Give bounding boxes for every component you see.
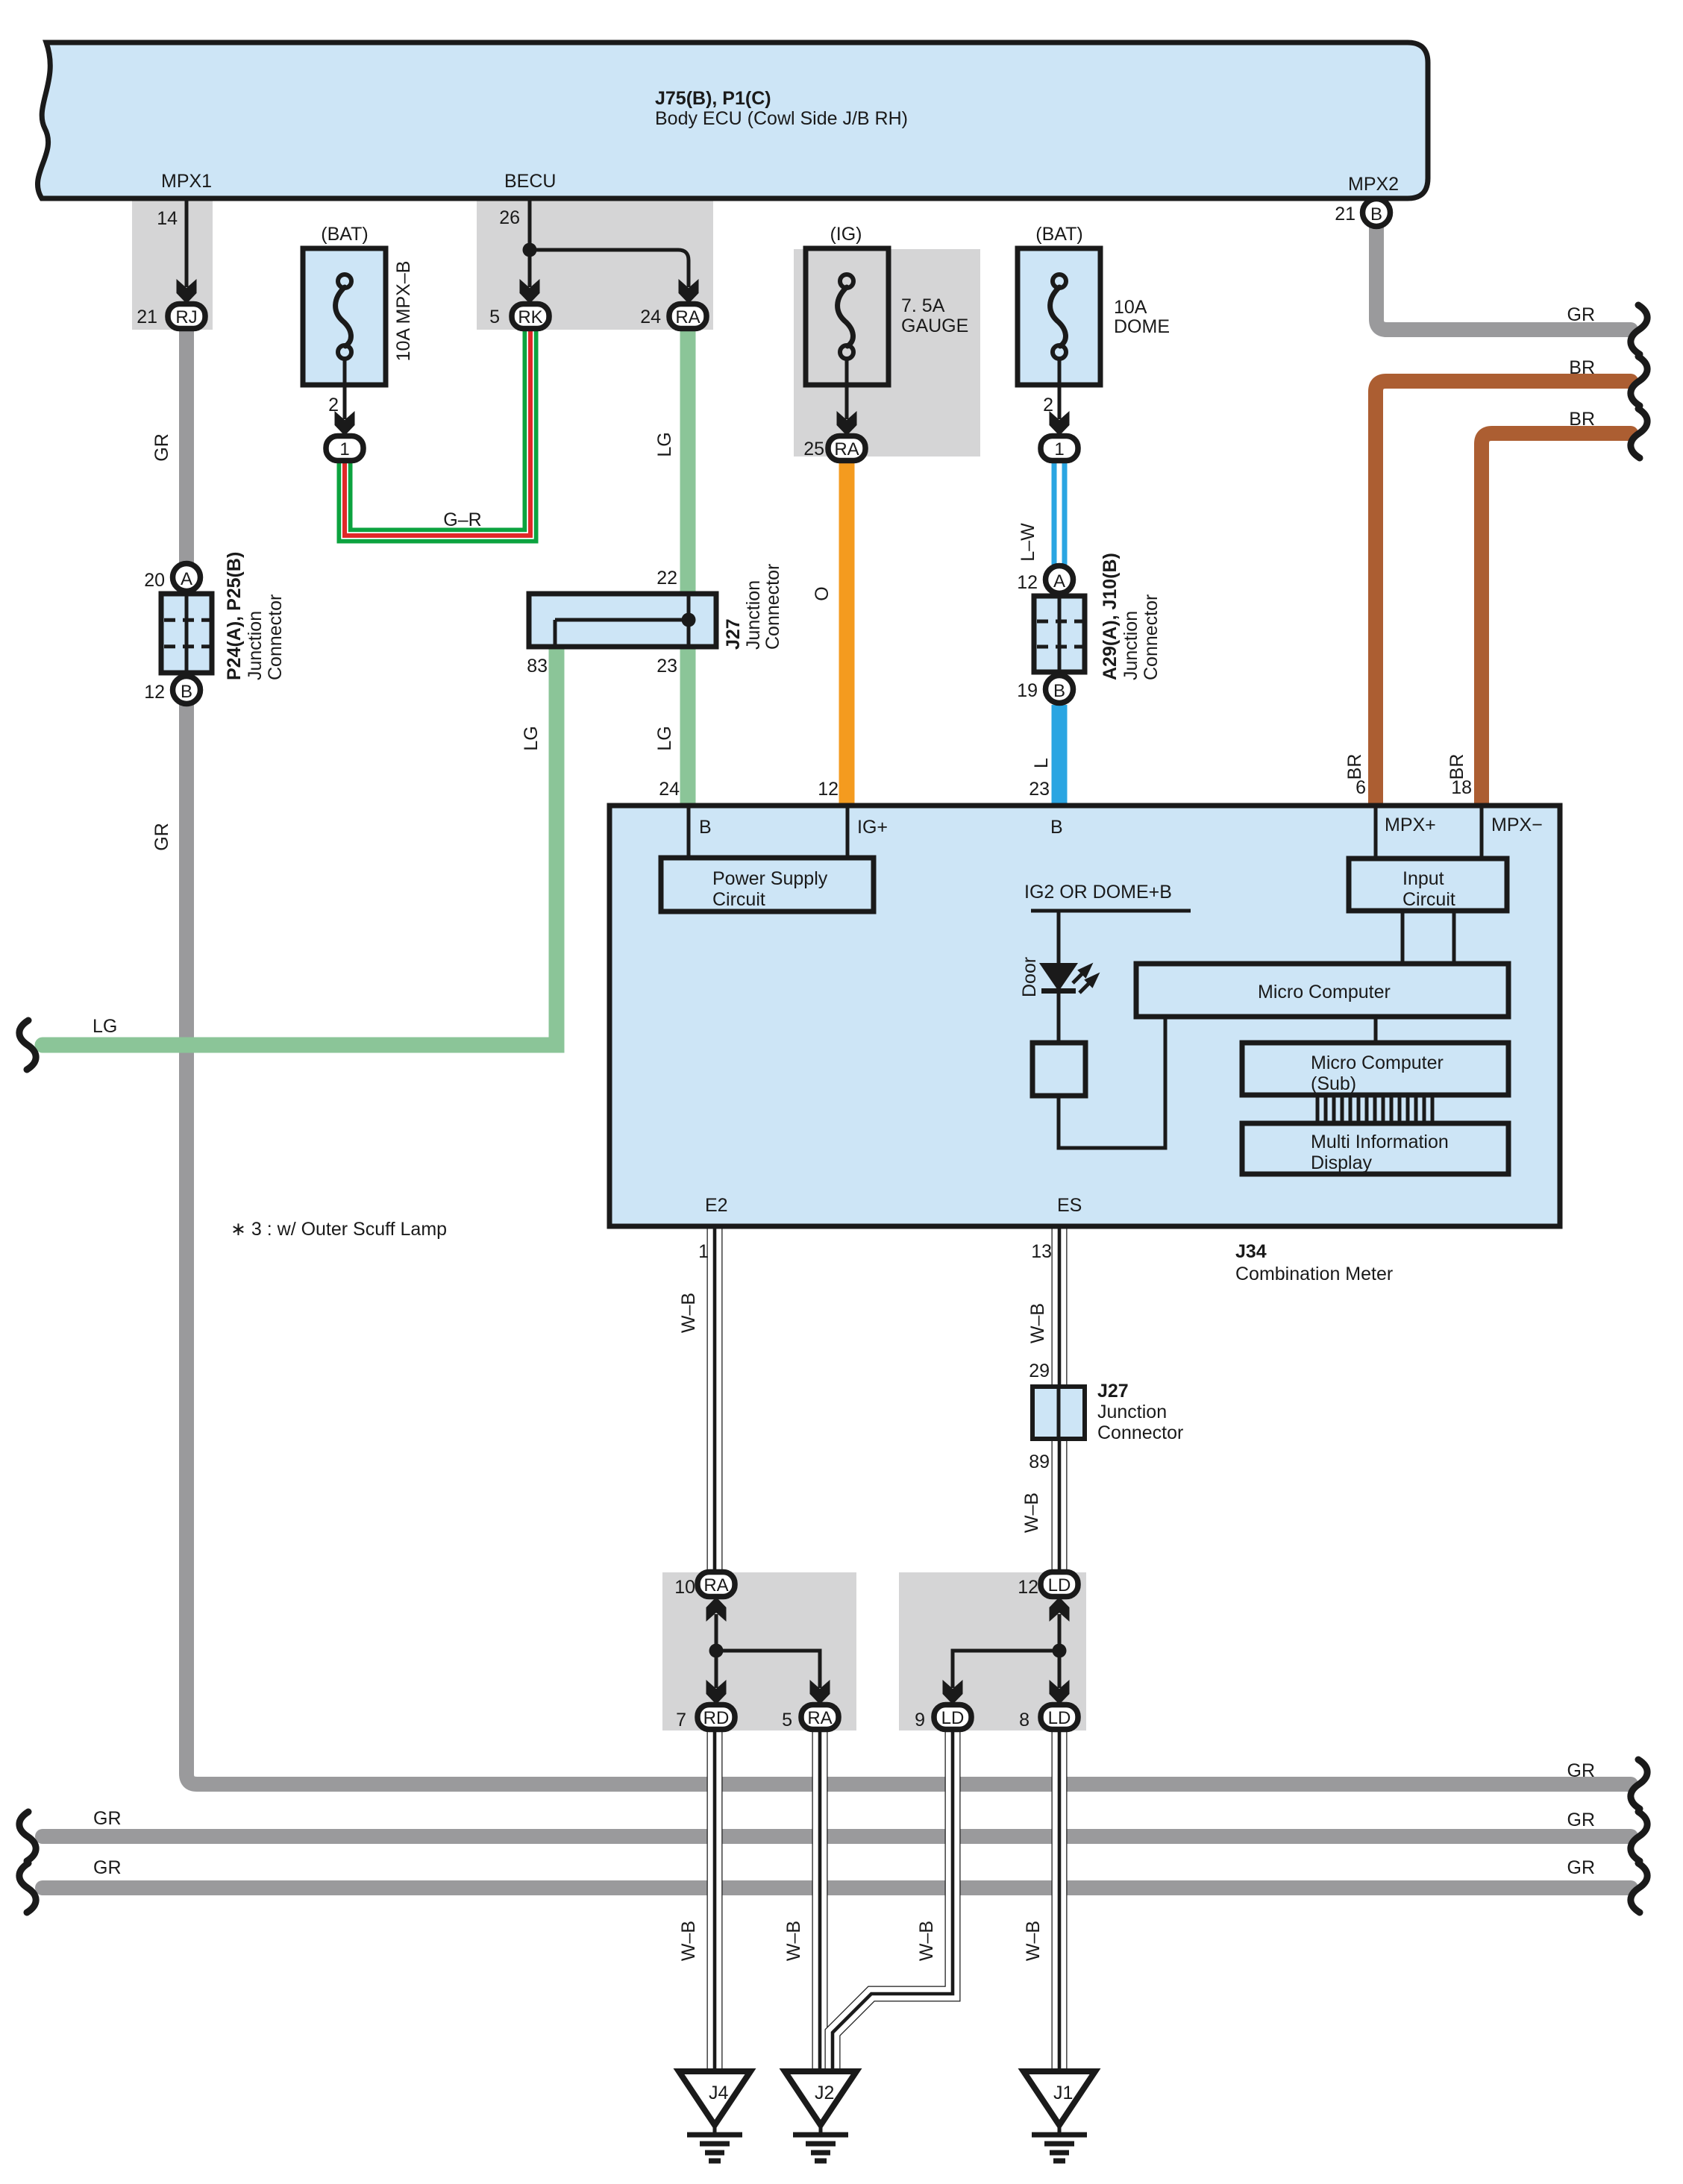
connector oval 12 LD bottom right <box>1018 1572 1078 1598</box>
wire GR from pin21 RJ down to bottom row A <box>187 328 1631 1784</box>
svg-text:21: 21 <box>1335 204 1356 225</box>
svg-text:25: 25 <box>803 439 824 459</box>
svg-text:7. 5A: 7. 5A <box>901 295 945 316</box>
wire G-R from oval1 to RK5 <box>345 331 530 536</box>
svg-text:A: A <box>181 569 192 589</box>
arrow up into 10RA <box>706 1597 727 1622</box>
svg-text:10: 10 <box>674 1577 695 1598</box>
svg-text:Micro Computer: Micro Computer <box>1258 982 1391 1002</box>
svg-text:J1: J1 <box>1053 2083 1073 2103</box>
svg-text:W–B: W–B <box>783 1921 804 1961</box>
label pin 1 below E2 <box>698 1241 709 1262</box>
svg-text:Junction: Junction <box>1097 1402 1167 1422</box>
wire GAUGE fuse lead to RA25 <box>845 385 849 419</box>
shade rect under BECU pin 26 <box>477 198 713 330</box>
svg-text:GR: GR <box>1567 1857 1596 1878</box>
svg-text:W–B: W–B <box>1021 1493 1042 1533</box>
label BR right 2 <box>1569 409 1595 430</box>
svg-text:B: B <box>181 682 192 702</box>
ground J4 <box>679 2071 750 2161</box>
svg-text:Connector: Connector <box>1097 1422 1183 1443</box>
connector oval 5 RK <box>489 304 549 329</box>
svg-text:LD: LD <box>1048 1575 1071 1595</box>
svg-text:Circuit: Circuit <box>712 889 765 910</box>
svg-text:5: 5 <box>782 1710 792 1730</box>
svg-text:Junction: Junction <box>245 611 266 680</box>
connector oval 1 under MPX-B fuse <box>326 395 363 461</box>
node junction dot pin26 <box>523 243 537 257</box>
wire W-B from 8 LD to ground J1 <box>1052 1730 1068 2071</box>
fuse 10A MPX-B <box>303 224 414 385</box>
svg-text:BR: BR <box>1344 754 1365 780</box>
svg-text:MPX2: MPX2 <box>1348 174 1399 195</box>
label G-R <box>443 509 481 530</box>
svg-text:24: 24 <box>640 307 661 327</box>
label W-B wire2 bottom <box>783 1921 804 1961</box>
label W-B wire4 bottom <box>1023 1921 1044 1961</box>
label LG at pin83 wire <box>521 726 542 750</box>
svg-text:MPX+: MPX+ <box>1385 815 1436 835</box>
svg-text:10A: 10A <box>1114 297 1147 318</box>
wire break squiggle left LG <box>19 1020 36 1070</box>
combination meter box J34 <box>609 806 1560 1226</box>
svg-text:J2: J2 <box>815 2083 834 2103</box>
svg-text:L–W: L–W <box>1018 523 1038 562</box>
svg-text:G–R: G–R <box>443 509 481 530</box>
label GR right row A <box>1567 1760 1596 1781</box>
wire LED to switch box <box>1057 994 1061 1043</box>
wire break squiggle left row C <box>19 1863 36 1912</box>
svg-text:8: 8 <box>1019 1710 1029 1730</box>
wire break squiggle right BR1 <box>1631 357 1647 406</box>
svg-text:LG: LG <box>521 726 542 750</box>
connector oval 25 RA under GAUGE fuse <box>803 436 865 461</box>
switch box in door circuit <box>1032 1043 1085 1096</box>
svg-text:J75(B), P1(C): J75(B), P1(C) <box>655 88 771 109</box>
svg-text:(BAT): (BAT) <box>321 224 368 245</box>
note w/ Outer Scuff Lamp <box>231 1219 447 1240</box>
shade rect bottom-right connector group <box>899 1572 1086 1730</box>
wire pin26 lead with junction <box>530 201 689 287</box>
svg-text:23: 23 <box>656 656 677 677</box>
wire switch box to micro computer <box>1059 1017 1165 1148</box>
ECU box J75(B) P1(C) <box>37 43 1428 198</box>
label W-B wire1 bottom <box>678 1921 699 1961</box>
connector circle 21 B at MPX2 <box>1335 199 1390 227</box>
wire MPX-B fuse lead to oval 1 <box>343 385 347 419</box>
label pin 24 at J34 <box>659 779 680 800</box>
svg-text:9: 9 <box>915 1710 925 1730</box>
connector oval 9 LD <box>915 1705 971 1731</box>
wire break squiggle right row C <box>1631 1863 1647 1912</box>
label GR left row B <box>93 1808 122 1829</box>
wire 12LD to junction dot to 9LD and 8LD <box>953 1614 1059 1688</box>
wire GR row B <box>43 1829 1631 1844</box>
svg-text:BR: BR <box>1569 409 1595 430</box>
svg-text:12: 12 <box>1017 572 1038 593</box>
svg-text:12: 12 <box>144 682 165 703</box>
label GR right row C <box>1567 1857 1596 1878</box>
svg-text:RA: RA <box>675 307 700 327</box>
svg-text:Circuit: Circuit <box>1402 889 1455 910</box>
wire break squiggle left row B <box>19 1812 36 1861</box>
label GR on left wire lower <box>151 823 172 851</box>
ribbon hatch between sub and display <box>1317 1095 1432 1123</box>
block Power Supply Circuit <box>661 858 874 911</box>
arrow into 8LD <box>1050 1680 1070 1704</box>
label W-B on E2 wire <box>678 1293 699 1333</box>
svg-text:MPX−: MPX− <box>1491 815 1543 835</box>
svg-text:Connector: Connector <box>1141 594 1162 680</box>
wire GR from MPX2 B circle to right edge <box>1376 226 1631 330</box>
svg-text:Display: Display <box>1311 1152 1372 1173</box>
label BR2 <box>1447 754 1467 780</box>
wire 10RA to junction dot to 7RD and 5RA <box>716 1614 820 1688</box>
label W-B below J27 lower <box>1021 1493 1042 1533</box>
connector oval 1 under DOME fuse <box>1041 395 1078 461</box>
svg-text:P24(A), P25(B): P24(A), P25(B) <box>224 552 245 680</box>
svg-text:RA: RA <box>807 1708 832 1728</box>
svg-text:Junction: Junction <box>1121 611 1141 680</box>
wire O from RA25 to J34 pin12 <box>839 459 855 804</box>
svg-text:IG+: IG+ <box>857 817 888 838</box>
svg-text:BR: BR <box>1447 754 1467 780</box>
label GR right top <box>1567 304 1596 325</box>
svg-text:W–B: W–B <box>916 1921 937 1961</box>
svg-text:83: 83 <box>527 656 548 677</box>
wire bus to LED <box>1057 911 1061 964</box>
wire break squiggle right BR2 <box>1631 409 1647 458</box>
svg-text:LG: LG <box>654 432 675 456</box>
svg-text:GR: GR <box>1567 304 1596 325</box>
svg-text:BECU: BECU <box>504 171 556 192</box>
node junction dot right group <box>1053 1644 1067 1658</box>
label 26 <box>499 207 520 228</box>
label GR on left wire upper <box>151 433 172 462</box>
shade rect under MPX1 pin 14 <box>132 198 213 330</box>
svg-text:24: 24 <box>659 779 680 800</box>
svg-text:RA: RA <box>703 1575 728 1595</box>
svg-text:BR: BR <box>1569 357 1595 378</box>
svg-text:L: L <box>1031 758 1052 768</box>
svg-text:RA: RA <box>834 439 859 459</box>
svg-text:MPX1: MPX1 <box>161 171 212 192</box>
wire L from A29 circle B to J34 pin23 <box>1052 705 1068 804</box>
arrow up into 12LD <box>1050 1597 1070 1622</box>
svg-text:RJ: RJ <box>175 307 197 327</box>
svg-text:19: 19 <box>1017 680 1038 701</box>
fuse 10A DOME <box>1018 224 1170 385</box>
junction connector A29(A) J10(B) <box>1017 553 1162 703</box>
svg-text:7: 7 <box>676 1710 686 1730</box>
node IG2 OR DOME+B bus <box>1024 882 1191 911</box>
label W-B on ES wire <box>1027 1303 1048 1343</box>
svg-text:23: 23 <box>1029 779 1050 800</box>
wire stub B to power supply <box>687 808 691 858</box>
svg-text:W–B: W–B <box>1027 1303 1048 1343</box>
svg-text:J27: J27 <box>1097 1381 1129 1402</box>
block Multi Information Display <box>1242 1123 1508 1174</box>
connector oval 8 LD <box>1019 1705 1078 1731</box>
label pin 13 below ES <box>1031 1241 1052 1262</box>
junction connector J27 lower <box>1029 1361 1183 1472</box>
svg-text:∗ 3 : w/ Outer Scuff Lamp: ∗ 3 : w/ Outer Scuff Lamp <box>231 1219 447 1240</box>
label pin 18 at J34 <box>1451 777 1472 798</box>
svg-text:B: B <box>1370 204 1382 225</box>
svg-text:RK: RK <box>518 307 542 327</box>
svg-text:2: 2 <box>1043 395 1053 415</box>
block Micro Computer <box>1136 964 1508 1017</box>
wire BR MPX- pin18 <box>1482 433 1631 804</box>
svg-text:GAUGE: GAUGE <box>901 316 968 336</box>
wire GR row C <box>43 1880 1631 1895</box>
svg-text:B: B <box>699 817 712 838</box>
wire stub MPX- to input circuit <box>1480 808 1484 859</box>
fuse 7.5A GAUGE <box>806 224 968 385</box>
label L-W <box>1018 523 1038 562</box>
svg-text:Body ECU (Cowl Side J/B RH): Body ECU (Cowl Side J/B RH) <box>655 108 908 129</box>
wire stub MPX+ to input circuit <box>1374 808 1378 859</box>
svg-text:J27: J27 <box>723 618 744 650</box>
svg-text:Power Supply: Power Supply <box>712 868 828 889</box>
svg-text:E2: E2 <box>705 1195 728 1216</box>
wire LG from RA24 to J27 pin22 <box>680 328 696 593</box>
svg-text:LG: LG <box>93 1016 117 1037</box>
svg-text:Junction: Junction <box>743 580 764 650</box>
junction connector P24(A) P25(B) <box>144 552 286 704</box>
arrow into oval1 DOME <box>1050 411 1070 436</box>
label BR1 <box>1344 754 1365 780</box>
svg-text:22: 22 <box>656 568 677 589</box>
svg-text:DOME: DOME <box>1114 316 1170 337</box>
wire W-B from 7 RD to ground J4 <box>707 1730 723 2071</box>
svg-text:GR: GR <box>151 433 172 462</box>
svg-text:W–B: W–B <box>678 1921 699 1961</box>
wire BR MPX+ pin6 <box>1376 381 1631 804</box>
svg-text:1: 1 <box>339 439 349 459</box>
svg-text:26: 26 <box>499 207 520 228</box>
label LG left <box>93 1016 117 1037</box>
svg-text:(IG): (IG) <box>830 224 862 245</box>
connector oval 10 RA bottom left <box>674 1572 735 1598</box>
arrow into 9LD <box>943 1680 963 1704</box>
label pin 12 at J34 <box>818 779 839 800</box>
label LG at pin24 wire <box>654 726 675 750</box>
label 14 <box>157 208 178 229</box>
label O orange wire <box>812 586 833 600</box>
svg-text:2: 2 <box>328 395 339 415</box>
svg-text:1: 1 <box>1054 439 1064 459</box>
svg-text:Input: Input <box>1402 868 1444 889</box>
label GR left row C <box>93 1857 122 1878</box>
label pin 6 at J34 <box>1356 777 1366 798</box>
svg-text:Combination Meter: Combination Meter <box>1235 1264 1393 1284</box>
node junction dot left group <box>709 1644 724 1658</box>
arrow into RA24 <box>679 279 699 304</box>
ground J1 <box>1024 2071 1095 2161</box>
wire W-B from 5 RA to ground J2 <box>812 1730 828 2071</box>
svg-text:13: 13 <box>1031 1241 1052 1262</box>
arrow into oval1 MPX-B <box>335 411 355 436</box>
svg-text:(Sub): (Sub) <box>1311 1073 1356 1094</box>
wire L-W from oval1 DOME to A29 circle A <box>1052 459 1068 565</box>
svg-text:A: A <box>1053 571 1065 591</box>
label W-B wire3 bottom <box>916 1921 937 1961</box>
svg-text:B: B <box>1053 681 1065 701</box>
label GR right row B <box>1567 1810 1596 1830</box>
svg-text:O: O <box>812 586 833 600</box>
svg-text:J4: J4 <box>709 2083 729 2103</box>
svg-text:20: 20 <box>144 570 165 591</box>
svg-text:Micro Computer: Micro Computer <box>1311 1052 1444 1073</box>
svg-text:GR: GR <box>93 1857 122 1878</box>
svg-text:29: 29 <box>1029 1361 1050 1381</box>
svg-text:IG2 OR DOME+B: IG2 OR DOME+B <box>1024 882 1172 903</box>
svg-text:Connector: Connector <box>762 564 783 650</box>
wire stub IG+ to power supply <box>846 808 850 858</box>
wire pin14 lead <box>185 201 189 287</box>
svg-text:Connector: Connector <box>265 594 286 680</box>
ground J2 <box>785 2071 856 2161</box>
svg-text:10A MPX–B: 10A MPX–B <box>393 261 414 362</box>
svg-text:A29(A), J10(B): A29(A), J10(B) <box>1100 553 1121 680</box>
svg-text:89: 89 <box>1029 1452 1050 1472</box>
shade rect bottom-left connector group <box>662 1572 856 1730</box>
label J34 Combination Meter <box>1235 1241 1393 1284</box>
wire LG from J27 pin23 to J34 pin24 <box>680 647 696 804</box>
connector oval 24 RA <box>640 304 706 329</box>
arrow into 5RA <box>810 1680 830 1704</box>
svg-text:12: 12 <box>1018 1577 1038 1598</box>
svg-text:GR: GR <box>93 1808 122 1829</box>
svg-text:Door: Door <box>1019 957 1040 997</box>
connector oval 7 RD <box>676 1705 735 1731</box>
wire input circuit to micro computer right <box>1452 911 1456 964</box>
svg-text:12: 12 <box>818 779 839 800</box>
svg-text:LG: LG <box>654 726 675 750</box>
wire W-B from E2 to 10 RA <box>707 1228 723 1574</box>
block Input Circuit <box>1349 859 1507 911</box>
svg-text:GR: GR <box>1567 1810 1596 1830</box>
svg-text:(BAT): (BAT) <box>1035 224 1082 245</box>
shade rect around GAUGE fuse <box>794 249 980 456</box>
svg-text:W–B: W–B <box>678 1293 699 1333</box>
LED door lamp <box>1019 957 1104 997</box>
arrow into RJ <box>177 279 197 304</box>
svg-text:LD: LD <box>1048 1708 1071 1728</box>
svg-text:GR: GR <box>151 823 172 851</box>
svg-text:GR: GR <box>1567 1760 1596 1781</box>
wire W-B from ES through J27 to 12 LD <box>1052 1228 1068 1574</box>
wire break squiggle right row A <box>1631 1760 1647 1809</box>
svg-text:LD: LD <box>941 1708 965 1728</box>
connector oval 5 RA bottom <box>782 1705 839 1731</box>
arrow into 7RD <box>706 1680 727 1704</box>
junction connector J27 center <box>527 564 783 677</box>
svg-text:5: 5 <box>489 307 500 327</box>
wire input circuit to micro computer left <box>1401 911 1405 964</box>
svg-text:1: 1 <box>698 1241 709 1262</box>
svg-text:J34: J34 <box>1235 1241 1267 1262</box>
svg-text:14: 14 <box>157 208 178 229</box>
wire break squiggle right GR top <box>1631 305 1647 354</box>
svg-text:RD: RD <box>703 1708 730 1728</box>
wire micro computer to sub <box>1374 1017 1378 1043</box>
svg-text:21: 21 <box>137 307 157 327</box>
label BR right 1 <box>1569 357 1595 378</box>
block Micro Computer (Sub) <box>1242 1043 1508 1095</box>
connector oval 21 RJ <box>137 304 205 329</box>
arrow into RA25 <box>837 411 857 436</box>
svg-text:W–B: W–B <box>1023 1921 1044 1961</box>
svg-text:B: B <box>1050 817 1063 838</box>
wire DOME fuse lead to oval 1 <box>1058 385 1062 419</box>
label LG between RA24 and J27 <box>654 432 675 456</box>
wire W-B from 9 LD jogging left to ground J2 <box>833 1730 953 2071</box>
wire LG from left break to J27 pin83 <box>43 648 557 1045</box>
wire break squiggle right row B <box>1631 1812 1647 1861</box>
label pin 23 at J34 <box>1029 779 1050 800</box>
svg-text:ES: ES <box>1057 1195 1082 1216</box>
arrow into RK <box>520 279 540 304</box>
svg-text:Multi Information: Multi Information <box>1311 1132 1449 1152</box>
label L <box>1031 758 1052 768</box>
